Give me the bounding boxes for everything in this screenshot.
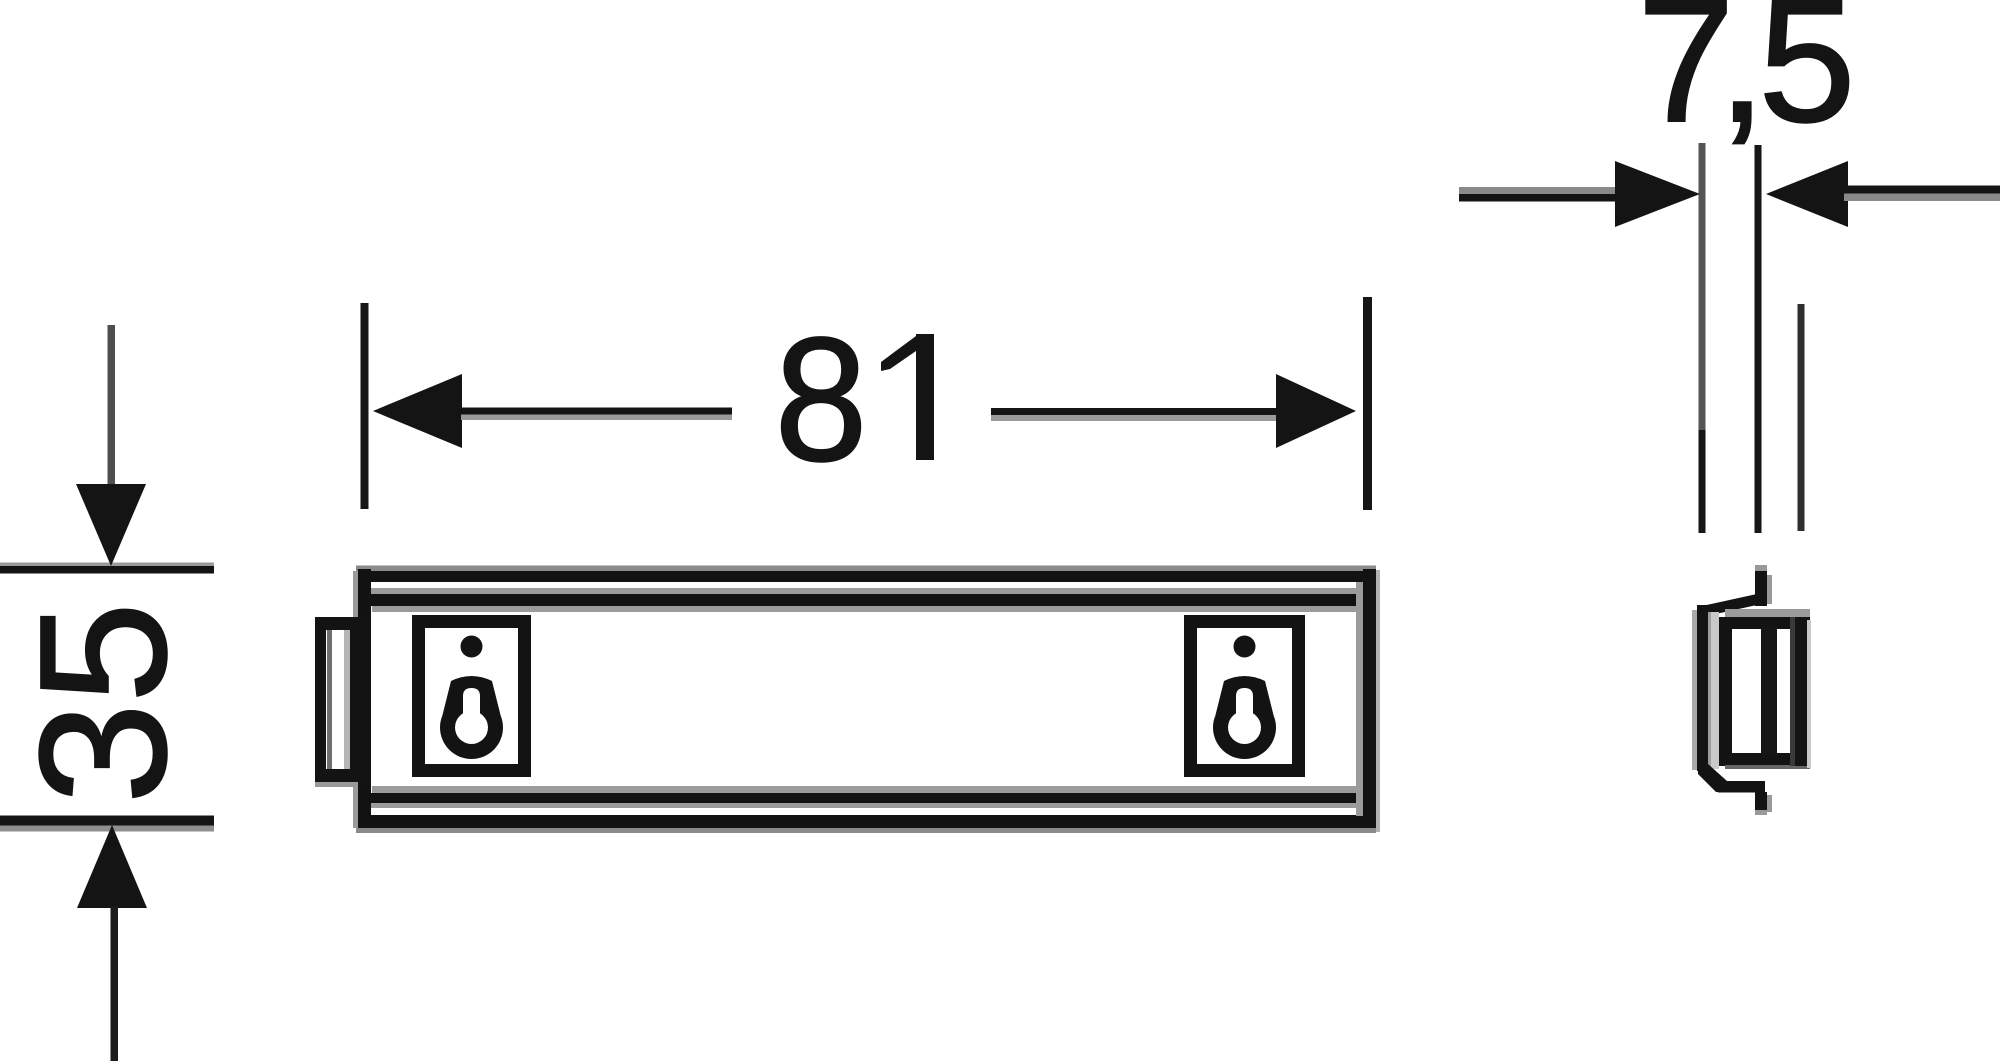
right keyhole dot xyxy=(1234,636,1256,658)
front view: right inner gray stripe xyxy=(1356,582,1363,816)
dimension 35 bottom arrowhead xyxy=(77,825,147,908)
side view right edge extension line xyxy=(1798,304,1805,531)
dimension 7,5 left shaft xyxy=(1459,187,1618,202)
left keyhole slot xyxy=(440,676,503,759)
dimension 7,5 right shaft xyxy=(1844,186,2000,202)
dimension 81 right extension line xyxy=(1363,297,1372,510)
dimension 7,5 left arrowhead xyxy=(1615,161,1700,227)
right keyhole plate xyxy=(1191,622,1299,771)
dimension 35 top arrow line xyxy=(108,325,116,487)
side view: middle bar xyxy=(1761,629,1777,753)
dimension 81 left shaft xyxy=(461,408,732,421)
left tab xyxy=(315,617,371,787)
front view: top inner rail line xyxy=(369,588,1360,612)
side view: bottom hook stub xyxy=(1755,792,1772,815)
dimension 81 left arrowhead xyxy=(373,374,462,448)
dimension 81 right arrowhead xyxy=(1276,374,1356,448)
dimension 35 bottom extension line xyxy=(0,816,214,832)
side view: main rectangle xyxy=(1719,609,1811,769)
side view: bottom bar xyxy=(1718,781,1765,793)
dimension 35 bottom arrow line xyxy=(111,906,119,1061)
dimension 35 top extension line xyxy=(0,563,214,574)
front view: outer body xyxy=(353,566,1380,834)
dimension 35 top arrowhead xyxy=(76,484,146,566)
dimension 7,5 right extension line xyxy=(1755,145,1762,533)
dimension 81 right shaft xyxy=(991,408,1280,421)
front view: bottom inner rail line xyxy=(369,786,1360,808)
left keyhole plate xyxy=(419,622,525,771)
svg-text:8: 8 xyxy=(775,302,868,498)
left keyhole dot xyxy=(461,636,483,658)
side view: top diagonal xyxy=(1702,592,1766,617)
dimension 7,5 left extension line xyxy=(1699,143,1706,533)
side view: bottom diagonal xyxy=(1698,762,1727,792)
svg-text:5: 5 xyxy=(1758,0,1855,159)
side view: top hook stub xyxy=(1755,565,1772,606)
dimension 7,5 right arrowhead xyxy=(1766,161,1848,227)
side view: left face xyxy=(1692,605,1719,771)
svg-text:35: 35 xyxy=(3,602,204,804)
dimension 81 left extension line xyxy=(361,303,369,509)
right keyhole slot xyxy=(1213,676,1276,759)
